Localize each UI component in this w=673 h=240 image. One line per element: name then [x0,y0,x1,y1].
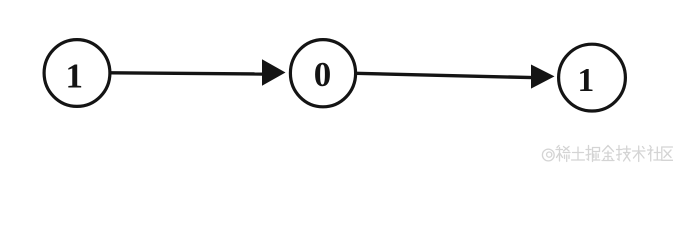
watermark glyph 掘 [586,146,600,162]
watermark glyph 稀 [556,146,570,162]
watermark "@稀土掘金技术社区" (drawn as light-gray vector strokes) [542,146,673,162]
watermark glyph 金 [602,146,614,161]
arrowhead of edge 1→0 [262,59,286,85]
watermark glyph @ [542,149,554,161]
wire: edge from node 1 to node 0 [111,73,264,74]
wire: edge from node 0 to node 1 (right) [356,73,533,77]
node circle 2 (middle, label 0) [290,40,355,107]
svg-text:1: 1 [65,57,83,96]
node circle 1 (left, label 1) [44,40,110,107]
watermark glyph 土 [572,147,585,160]
svg-text:0: 0 [314,55,332,94]
svg-text:1: 1 [578,62,595,99]
watermark glyph 技 [617,146,631,162]
watermark glyph 区 [662,147,673,160]
watermark glyph 社 [648,146,662,162]
watermark glyph 术 [633,146,646,162]
arrowhead of edge 0→1 [531,65,555,89]
node circle 3 (right, label 1) [559,44,626,111]
